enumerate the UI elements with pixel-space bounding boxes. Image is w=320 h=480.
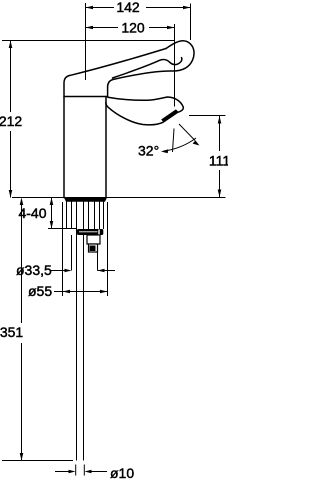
dimension 142 (86, 0, 191, 15)
body right edge (105, 97, 107, 198)
dimension o33,5 (16, 262, 115, 278)
lever blade underside (113, 58, 182, 78)
body shoulder line (64, 96, 108, 98)
wire mounting surface extension right (107, 197, 226, 199)
supply pipe (76, 202, 78, 461)
svg-text:ø10: ø10 (110, 465, 134, 480)
wire ext line base right down (107, 202, 109, 296)
aerator hatched band (161, 109, 178, 122)
lever handle loop tip outer and return (108, 41, 194, 97)
spout (106, 97, 184, 125)
shank tube below base (67, 202, 104, 230)
body base bottom (64, 197, 108, 202)
body outline (64, 49, 166, 198)
wire mounting surface extension left (12, 197, 64, 199)
dimension 111 (209, 116, 230, 197)
dimension 212 (0, 41, 22, 198)
svg-text:212: 212 (0, 113, 22, 129)
svg-text:ø55: ø55 (28, 283, 52, 299)
dimension 4-40 (18, 198, 53, 229)
wire o10 extension ticks (75, 465, 77, 476)
wire pipe bottom extension (2, 460, 73, 462)
wire extension line V1 faucet axis (85, 3, 87, 80)
32 degree annotation vertical leg (173, 129, 175, 153)
dimension 120 (86, 20, 175, 36)
wire extension line H1 top of lever (2, 40, 175, 42)
32 degree arc (163, 138, 196, 151)
dimension o55 (28, 283, 108, 299)
dimension 351 (0, 198, 23, 461)
wire ext line o33,5 right down (97, 253, 99, 271)
wire ext line o33,5 left down (71, 235, 73, 271)
nut dark square (90, 246, 96, 252)
wire extension line V2 right end of 142 (190, 4, 192, 41)
wire flange top extension (48, 228, 77, 230)
mounting flange washer (77, 229, 103, 235)
svg-text:32°: 32° (138, 143, 159, 159)
wire spout outlet extension (189, 115, 226, 117)
nut lower part (89, 244, 98, 252)
svg-text:351: 351 (0, 324, 23, 340)
wire extension line V3 right end of 120 (174, 24, 176, 107)
32 degree stream line with arrow (179, 124, 195, 141)
svg-text:120: 120 (121, 20, 145, 36)
dimension o10 (55, 465, 134, 480)
mounting nut (87, 235, 100, 244)
svg-text:142: 142 (116, 0, 140, 15)
svg-text:4-40: 4-40 (18, 205, 46, 221)
svg-text:111: 111 (209, 153, 228, 169)
wire ext line base left down (62, 202, 64, 296)
